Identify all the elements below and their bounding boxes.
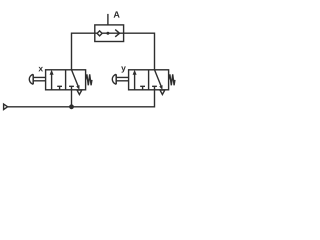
svg-text:A: A [113,10,120,20]
svg-text:x: x [38,63,43,73]
svg-text:y: y [121,63,126,73]
